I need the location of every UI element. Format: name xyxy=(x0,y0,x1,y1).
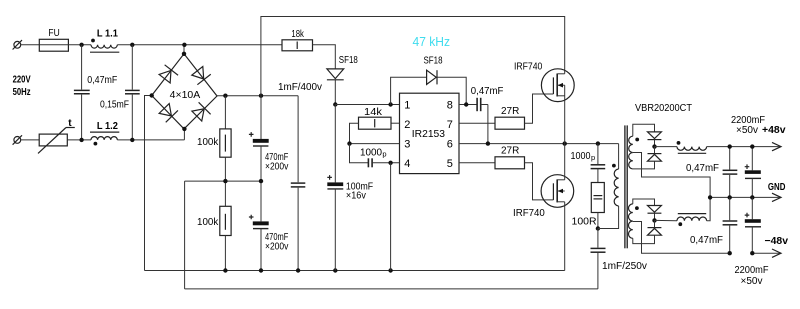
diode D4 (VBR top, lower) xyxy=(633,147,662,169)
wire midtap drop to lower rail xyxy=(184,181,186,289)
node main rail 470mF xyxy=(259,268,263,272)
svg-text:27R: 27R xyxy=(501,106,519,117)
wire top secondary center tap to GND xyxy=(633,153,710,198)
arrow GND output xyxy=(772,193,781,201)
capacitor C6 100mF x16v xyxy=(327,105,373,271)
node +48 rail 0.47 tap xyxy=(728,144,732,148)
wire bridge bottom vertex drop xyxy=(183,129,185,140)
node A junction (top X-cap tap) xyxy=(79,43,83,47)
svg-text:100k: 100k xyxy=(197,217,219,228)
bridge diode bottom-right xyxy=(191,102,211,122)
wire -48 inductor to GND riser xyxy=(707,197,711,220)
capacitor C9 1000p (snubber) xyxy=(571,144,606,169)
capacitor C4 470mF x200v (lower) xyxy=(249,181,288,270)
node main rail 100k xyxy=(223,268,227,272)
fuse FU xyxy=(39,28,68,51)
wire R2 to main rail xyxy=(224,236,226,271)
terminal X2 (line input bottom) xyxy=(13,135,22,144)
svg-text:×200v: ×200v xyxy=(265,161,288,172)
wire lower rail (cap midpoint net) xyxy=(185,288,598,290)
svg-text:IRF740: IRF740 xyxy=(514,62,543,73)
wire bootstrap riser xyxy=(391,77,427,104)
transformer T1 secondary winding (bottom) xyxy=(629,204,639,238)
arrow +48v output xyxy=(772,142,781,150)
svg-text:2: 2 xyxy=(404,119,410,131)
svg-text:0,47mF: 0,47mF xyxy=(690,235,723,246)
resistor R3 18k xyxy=(261,29,313,51)
node -48 rectifier junction xyxy=(652,218,656,222)
wire bridge top vertex riser xyxy=(183,45,185,54)
node main rail 1mF400v xyxy=(296,268,300,272)
node main rail 100mF xyxy=(333,268,337,272)
resistor R1 100k (upper) xyxy=(197,96,231,158)
svg-text:3: 3 xyxy=(404,138,410,150)
inductor L1.2 xyxy=(90,121,119,145)
diode D2 SF18 (bootstrap) xyxy=(424,56,443,85)
arrow -48v output xyxy=(752,252,780,254)
resistor R5 27R (high gate) xyxy=(459,106,525,129)
capacitor C12 2200mF x50v (+48) xyxy=(731,115,765,197)
svg-text:×200v: ×200v xyxy=(265,241,288,252)
bridge rectifier 4x10A diamond xyxy=(152,54,217,129)
transformer T1 primary winding xyxy=(598,144,619,229)
wire +48 rail xyxy=(707,146,780,148)
op-amp U1 IR2153 box xyxy=(400,93,460,173)
svg-text:1mF/400v: 1mF/400v xyxy=(278,82,322,93)
capacitor 0.15mF (X-cap) xyxy=(100,45,140,140)
transformer T1 secondary winding (top) xyxy=(629,136,639,169)
wire 14k left to pin3 node xyxy=(350,123,359,143)
svg-text:2200mF: 2200mF xyxy=(735,265,769,276)
svg-text:p: p xyxy=(382,149,386,158)
wire 27R to M1 gate xyxy=(525,94,554,123)
wire bridge plus rail xyxy=(217,95,298,97)
inductor L2 (+48 output) xyxy=(655,141,707,153)
resistor R2 100k (lower) xyxy=(197,206,231,235)
svg-text:14k: 14k xyxy=(364,107,383,118)
node pin3 junction xyxy=(347,141,351,145)
svg-text:1mF/250v: 1mF/250v xyxy=(602,261,647,272)
wire R1 to midtap xyxy=(224,157,226,206)
svg-text:×50v: ×50v xyxy=(736,125,758,136)
svg-text:0,47mF: 0,47mF xyxy=(471,86,504,97)
svg-text:+48v: +48v xyxy=(762,125,786,136)
svg-text:SF18: SF18 xyxy=(424,56,443,67)
node +48 rectifier junction xyxy=(652,144,656,148)
capacitor C13 0.47mF (-48 filter) xyxy=(690,197,737,253)
node pin8 junction xyxy=(464,102,468,106)
inductor L1.1 xyxy=(90,28,119,52)
wire fuse to node A xyxy=(68,44,91,46)
node VS half-bridge junction xyxy=(563,141,567,145)
wire pin3 xyxy=(350,143,400,145)
svg-text:0,15mF: 0,15mF xyxy=(100,99,129,110)
svg-text:1: 1 xyxy=(404,100,410,112)
resistor R6 27R (low gate) xyxy=(459,145,525,168)
wire bootstrap to pin8 xyxy=(437,77,466,104)
terminal X1 (line input top) xyxy=(13,40,22,49)
wire terminal to fuse xyxy=(21,44,40,46)
svg-text:GND: GND xyxy=(768,182,786,193)
svg-text:47 kHz: 47 kHz xyxy=(413,34,451,49)
svg-text:0,47mF: 0,47mF xyxy=(686,163,719,174)
svg-text:100k: 100k xyxy=(197,137,219,148)
svg-text:FU: FU xyxy=(48,28,59,39)
svg-text:4×10A: 4×10A xyxy=(170,90,201,101)
svg-text:p: p xyxy=(591,153,595,162)
node midtap 100k xyxy=(223,179,227,183)
node pin4 junction xyxy=(388,161,392,165)
wire L1.1 to bridge top riser xyxy=(117,44,261,46)
bridge diode bottom-left xyxy=(158,103,178,123)
node GND riser junction xyxy=(708,195,712,199)
node plus rail 100k tap xyxy=(223,94,227,98)
capacitor C8 0.47mF (bootstrap) xyxy=(471,86,504,144)
wire bottom secondary center tap to -48 rail xyxy=(633,222,730,254)
svg-text:IRF740: IRF740 xyxy=(513,208,545,219)
node -48 rail 2200 tap xyxy=(750,251,754,255)
svg-text:220V: 220V xyxy=(13,75,31,86)
wire pin4 to main rail xyxy=(390,163,392,271)
node midtap 470mF xyxy=(259,179,263,183)
wire midtap xyxy=(185,180,261,182)
capacitor C5 1mF/400v xyxy=(278,82,322,271)
wire 18k to SF18 xyxy=(313,45,336,69)
transistor Q1 IRF740 (high side) xyxy=(514,62,574,144)
svg-text:1000: 1000 xyxy=(571,151,591,162)
svg-text:27R: 27R xyxy=(501,145,519,156)
node VS boot junction xyxy=(486,141,490,145)
svg-text:0,47mF: 0,47mF xyxy=(87,75,117,86)
svg-text:×16v: ×16v xyxy=(346,191,366,202)
node main rail pin4 xyxy=(388,268,392,272)
svg-text:4: 4 xyxy=(404,158,410,170)
svg-text:VBR20200CT: VBR20200CT xyxy=(635,103,692,114)
resistor R4 14k xyxy=(359,107,400,129)
capacitor C11 0.47mF (+48 filter) xyxy=(686,147,737,198)
svg-text:L 1.1: L 1.1 xyxy=(97,28,118,39)
node C junction (bottom X-cap tap) xyxy=(79,138,83,142)
wire top secondary top lead xyxy=(633,124,655,136)
diode D3 (VBR top, upper) xyxy=(648,132,662,147)
node plus rail 470mF tap xyxy=(259,94,263,98)
wire terminal to thermistor xyxy=(21,139,40,141)
svg-text:6: 6 xyxy=(447,138,453,150)
node Vcc junction xyxy=(333,102,337,106)
capacitor C10 1mF/250v (DC block) xyxy=(591,229,648,289)
node VS snubber junction xyxy=(596,141,600,145)
node +48 rail 2200 tap xyxy=(750,144,754,148)
svg-text:8: 8 xyxy=(447,100,453,112)
wire main rail (bridge minus) xyxy=(145,270,565,272)
wire thermistor to L1.2 xyxy=(67,139,91,141)
wire L1.2 to bridge bottom corner xyxy=(117,139,184,141)
wire pin6 (VS node) xyxy=(459,143,619,145)
node -48 rail 0.47 tap xyxy=(728,251,732,255)
transformer core xyxy=(625,125,627,248)
node bridge left vertex xyxy=(150,93,154,97)
node bridge top vertex xyxy=(182,52,186,56)
diode D1 SF18 (startup) xyxy=(327,55,358,104)
node B junction (0.15mF top) xyxy=(130,43,134,47)
svg-text:SF18: SF18 xyxy=(339,55,358,66)
wire bridge minus (left vertex to main rail) xyxy=(145,96,152,271)
node GND rail 2200 tap xyxy=(750,195,754,199)
transistor Q2 IRF740 (low side) xyxy=(513,144,574,271)
svg-text:5: 5 xyxy=(447,158,453,170)
svg-text:18k: 18k xyxy=(291,29,304,40)
node bridge AC top junction xyxy=(182,43,186,47)
wire Vcc to pin1 xyxy=(335,104,399,106)
wire pin8 xyxy=(459,104,477,106)
resistor R7 100R (snubber) xyxy=(572,169,605,229)
svg-text:IR2153: IR2153 xyxy=(412,128,445,140)
wire 27R to M2 gate xyxy=(525,163,554,200)
wire GND rail xyxy=(710,196,780,198)
bridge diode top-right xyxy=(191,66,211,85)
capacitor C7 1000p (timing) xyxy=(350,144,400,168)
diode D6 (VBR bottom, lower) xyxy=(633,220,662,243)
node bootstrap tap xyxy=(388,102,392,106)
wire top DC rail xyxy=(261,17,565,96)
capacitor C3 470mF x200v (upper) xyxy=(249,96,288,181)
svg-text:50Hz: 50Hz xyxy=(13,87,31,98)
capacitor C14 2200mF x50v (-48) xyxy=(735,197,769,287)
svg-text:7: 7 xyxy=(447,119,453,131)
wire bottom secondary top lead xyxy=(633,199,655,206)
svg-text:100R: 100R xyxy=(572,217,597,228)
svg-text:×50v: ×50v xyxy=(741,276,763,287)
thermistor t xyxy=(38,118,75,153)
inductor L3 (-48 output) xyxy=(655,214,707,227)
node snubber bottom junction xyxy=(596,226,600,230)
diode D5 (VBR bottom, upper) xyxy=(648,206,662,221)
svg-text:−48v: −48v xyxy=(765,236,789,247)
bridge diode top-left xyxy=(158,65,178,84)
svg-text:L 1.2: L 1.2 xyxy=(97,121,118,132)
node bridge bottom vertex xyxy=(182,127,186,131)
svg-text:1000: 1000 xyxy=(360,147,382,158)
node GND rail 0.47 tap xyxy=(728,195,732,199)
capacitor 0.47mF (X-cap) xyxy=(74,45,117,140)
node D junction (0.15mF bottom) xyxy=(130,138,134,142)
